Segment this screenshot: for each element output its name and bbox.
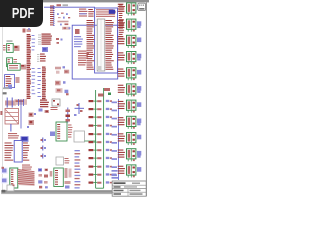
jumper JP1 — [41, 138, 47, 143]
transistor Q1 — [29, 113, 37, 118]
PDF badge — [0, 0, 43, 27]
svg-text:PDF: PDF — [12, 6, 35, 22]
transistor Q2 — [27, 120, 34, 128]
crystal Y1 — [51, 99, 61, 110]
jumper JP3 — [41, 154, 47, 159]
net label stack RP1 — [50, 6, 55, 26]
U1 body (IC outline) — [97, 19, 105, 71]
connector CN11 — [118, 165, 142, 178]
wire top rail — [44, 6, 95, 8]
marginal zone mark — [0, 111, 2, 115]
hierarchical block outline — [72, 25, 118, 79]
text dark bottom-left — [2, 190, 6, 193]
IC U6 body — [14, 141, 22, 163]
connector CN5 — [118, 68, 142, 81]
connector CN4 — [118, 52, 142, 65]
sheet background — [0, 0, 149, 198]
connector CN1 — [118, 3, 142, 16]
red cluster inside block — [78, 51, 89, 66]
pull-up pair row 2 — [89, 108, 113, 110]
bottom tie wire — [96, 187, 104, 189]
connector CN6 — [118, 84, 142, 97]
resistor pack RN2 — [8, 64, 27, 71]
pull-up pair row 9 — [89, 165, 113, 167]
window icon top right — [138, 3, 146, 10]
IC U5 — [5, 75, 20, 89]
connector CN7 — [118, 100, 142, 113]
gate symbol G1 — [1, 167, 8, 174]
title block — [112, 181, 146, 196]
resistor cluster R1 R2 — [58, 21, 71, 30]
bus net labels left column — [27, 34, 31, 99]
pull-up pair row 7 — [89, 149, 113, 151]
U6 left pins — [5, 143, 14, 161]
connector J2 — [7, 58, 17, 67]
discrete cluster D2 — [55, 81, 69, 96]
discrete cluster D1 — [55, 66, 69, 74]
bus labels mid column — [38, 67, 46, 100]
net labels right of U1 — [119, 5, 124, 40]
capacitor row C1-C4 — [57, 13, 70, 19]
connector jack J3 — [5, 109, 19, 132]
vertical wire net C — [118, 99, 120, 180]
bottom border band — [1, 191, 113, 194]
text label dark — [3, 92, 7, 94]
blue bars inside block — [74, 36, 83, 47]
net labels on wire C — [112, 102, 118, 177]
pull-up pair row 3 — [89, 116, 113, 118]
pull-up pair row 5 — [89, 133, 113, 135]
box M2 — [56, 157, 69, 165]
U6 right pins — [23, 143, 29, 161]
resistor cluster R20 — [40, 100, 49, 108]
U1 right pin labels — [106, 20, 114, 70]
pull-up pair row 10 — [89, 173, 113, 175]
connector CN9 — [118, 133, 142, 146]
connector J1 — [3, 40, 20, 52]
connector CN2 — [118, 19, 142, 32]
small parts row — [39, 109, 50, 114]
vertical diode chain — [66, 108, 71, 123]
IC U6 top labels — [8, 133, 29, 142]
module box M1 — [74, 131, 96, 142]
blue stubs on bus — [32, 35, 36, 94]
top edge band — [0, 0, 149, 2]
vertical wire net A — [95, 90, 97, 188]
connector J5 — [10, 168, 18, 188]
U1 header rows — [79, 9, 116, 17]
CPU block outline U1 — [95, 8, 118, 73]
ribbon fan wires — [18, 169, 35, 186]
pull-up pair row 8 — [89, 157, 113, 159]
vertical wire net B — [103, 88, 105, 188]
top row component — [98, 88, 111, 97]
transistor cross element — [74, 103, 84, 116]
connector CN8 — [118, 116, 142, 129]
resistor bars right of U8 — [65, 168, 72, 189]
connector CN10 — [118, 149, 142, 162]
resistor network RN3 — [38, 34, 52, 45]
U1 left pin labels — [87, 9, 95, 70]
net label stack bottom-mid — [75, 150, 81, 189]
pull-up pair row 6 — [89, 141, 113, 143]
component inside block corner — [75, 29, 80, 34]
IC U7 green box — [50, 122, 72, 141]
connector CN3 — [118, 35, 142, 48]
text VCC — [57, 4, 62, 6]
red cluster above J5 — [22, 165, 32, 170]
pull-up pair row 11 — [89, 181, 113, 183]
text label — [63, 4, 69, 6]
capacitor bank C10 — [5, 98, 27, 129]
small element below badge — [23, 28, 32, 32]
decoupling caps mid — [56, 38, 63, 44]
jumper JP2 — [41, 146, 47, 151]
text GND — [3, 88, 9, 90]
U1 bottom element — [97, 66, 102, 70]
pull-up pair row 4 — [89, 124, 113, 126]
bottom cluster caps — [38, 168, 52, 188]
mounting box — [7, 185, 15, 192]
IC U8 green box — [54, 168, 64, 187]
resistor cluster R10 — [37, 54, 46, 62]
sheet border frame — [3, 2, 147, 196]
net labels bottom right wire — [112, 170, 119, 179]
gate symbol G2 — [1, 178, 8, 184]
capacitor cluster C20 — [42, 47, 48, 52]
pull-up pair row 1 — [89, 100, 113, 102]
